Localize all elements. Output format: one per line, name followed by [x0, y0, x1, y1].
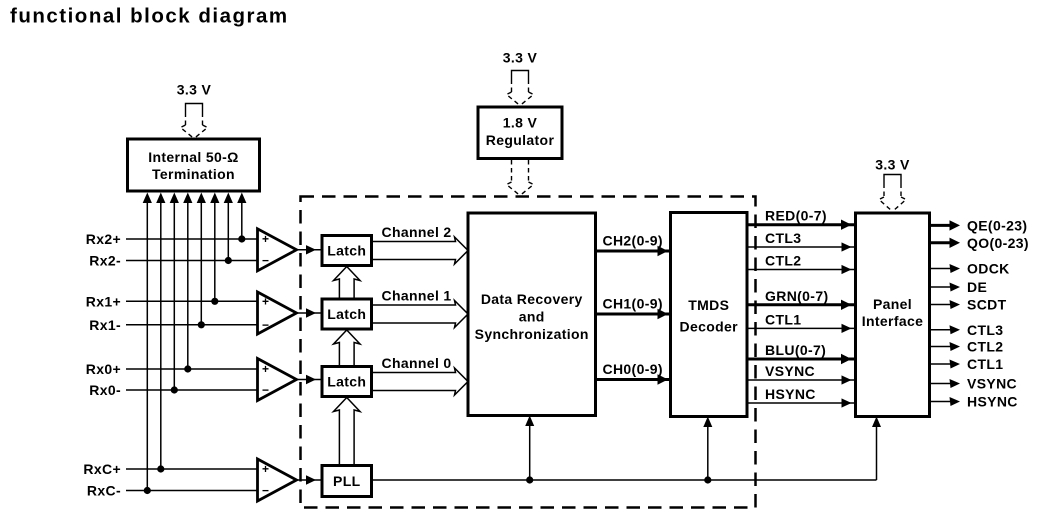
- svg-text:CTL2: CTL2: [967, 339, 1003, 355]
- svg-text:3.3 V: 3.3 V: [875, 157, 910, 173]
- svg-text:VSYNC: VSYNC: [765, 363, 815, 379]
- svg-text:−: −: [262, 318, 269, 332]
- svg-text:Rx0-: Rx0-: [89, 382, 121, 398]
- svg-text:ODCK: ODCK: [967, 261, 1010, 277]
- svg-text:RxC+: RxC+: [83, 461, 121, 477]
- svg-text:CH0(0-9): CH0(0-9): [603, 361, 663, 377]
- svg-text:DE: DE: [967, 279, 987, 295]
- svg-text:TMDS: TMDS: [688, 297, 729, 313]
- svg-text:Channel 0: Channel 0: [382, 355, 452, 371]
- svg-text:Rx0+: Rx0+: [86, 361, 121, 377]
- svg-text:Latch: Latch: [327, 306, 366, 322]
- svg-text:Interface: Interface: [862, 313, 924, 329]
- svg-text:Latch: Latch: [327, 243, 366, 259]
- svg-text:Regulator: Regulator: [486, 132, 555, 148]
- svg-text:Termination: Termination: [152, 166, 235, 182]
- svg-text:1.8 V: 1.8 V: [503, 115, 538, 131]
- svg-text:CH1(0-9): CH1(0-9): [603, 296, 663, 312]
- svg-text:Data Recovery: Data Recovery: [481, 291, 583, 307]
- svg-text:VSYNC: VSYNC: [967, 376, 1017, 392]
- svg-text:CTL3: CTL3: [967, 322, 1003, 338]
- svg-text:RED(0-7): RED(0-7): [765, 208, 827, 224]
- svg-text:−: −: [262, 484, 269, 498]
- svg-text:+: +: [262, 362, 269, 376]
- svg-text:Latch: Latch: [327, 374, 366, 390]
- svg-text:+: +: [262, 462, 269, 476]
- svg-text:Rx2+: Rx2+: [86, 231, 121, 247]
- svg-text:and: and: [519, 309, 545, 325]
- svg-text:CTL1: CTL1: [967, 356, 1003, 372]
- svg-text:SCDT: SCDT: [967, 297, 1007, 313]
- svg-text:+: +: [262, 295, 269, 309]
- svg-text:CTL3: CTL3: [765, 230, 801, 246]
- svg-text:HSYNC: HSYNC: [967, 394, 1018, 410]
- svg-text:HSYNC: HSYNC: [765, 386, 816, 402]
- svg-text:Channel 2: Channel 2: [382, 224, 452, 240]
- svg-text:Panel: Panel: [873, 296, 912, 312]
- svg-text:Channel 1: Channel 1: [382, 288, 452, 304]
- svg-text:Rx1+: Rx1+: [86, 293, 121, 309]
- svg-text:−: −: [262, 383, 269, 397]
- svg-text:Decoder: Decoder: [680, 318, 739, 334]
- svg-text:−: −: [262, 254, 269, 268]
- svg-text:+: +: [262, 232, 269, 246]
- svg-text:QE(0-23): QE(0-23): [967, 217, 1027, 233]
- svg-text:PLL: PLL: [333, 473, 361, 489]
- svg-text:CTL1: CTL1: [765, 311, 801, 327]
- svg-text:functional block diagram: functional block diagram: [10, 5, 289, 28]
- svg-text:Rx2-: Rx2-: [89, 253, 121, 269]
- svg-text:Rx1-: Rx1-: [89, 317, 121, 333]
- svg-text:QO(0-23): QO(0-23): [967, 235, 1029, 251]
- svg-text:3.3 V: 3.3 V: [177, 82, 212, 98]
- svg-text:Synchronization: Synchronization: [475, 326, 589, 342]
- svg-text:CH2(0-9): CH2(0-9): [603, 233, 663, 249]
- svg-text:Internal 50-Ω: Internal 50-Ω: [148, 149, 238, 165]
- svg-text:BLU(0-7): BLU(0-7): [765, 342, 826, 358]
- svg-text:RxC-: RxC-: [87, 483, 121, 499]
- svg-text:GRN(0-7): GRN(0-7): [765, 288, 828, 304]
- svg-text:CTL2: CTL2: [765, 253, 801, 269]
- svg-text:3.3 V: 3.3 V: [503, 50, 538, 66]
